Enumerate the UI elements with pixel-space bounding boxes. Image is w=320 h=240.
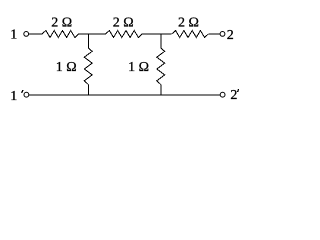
wire top: R1 to R2 through node A [79,33,106,35]
svg-text:2: 2 [227,28,234,43]
prime tick of 1' [22,90,23,93]
wire: node B down to R5 [160,34,162,48]
svg-text:2: 2 [230,88,237,103]
svg-text:2 Ω: 2 Ω [178,16,199,31]
resistor R2 2ohm zigzag [106,31,143,38]
svg-text:1 Ω: 1 Ω [56,60,77,75]
wire top: R2 to R3 through node B [142,33,172,35]
terminal 2 port circle [220,32,225,37]
resistor R3 2ohm zigzag [172,31,209,38]
svg-text:1: 1 [10,28,17,43]
svg-text:2 Ω: 2 Ω [51,16,72,31]
terminal 1' port circle [24,92,29,97]
wire top: port 1 to R1 [29,33,42,35]
wire: node A down to R4 [87,34,89,48]
terminal 2' port circle [220,92,225,97]
prime tick of 2' [238,89,239,92]
svg-text:1 Ω: 1 Ω [128,60,149,75]
svg-text:1: 1 [10,89,17,104]
resistor R5 1ohm shunt zigzag [157,48,165,84]
wire: R5 down to bottom rail [160,85,162,95]
resistor R4 1ohm shunt zigzag [84,48,92,84]
terminal 1 port circle [24,32,29,37]
wire top: R3 to port 2 [208,33,220,35]
wire bottom: port 1' to port 2' [29,94,220,96]
wire: R4 down to bottom rail [87,85,89,95]
resistor R1 2ohm zigzag [42,31,79,38]
svg-text:2 Ω: 2 Ω [113,16,134,31]
